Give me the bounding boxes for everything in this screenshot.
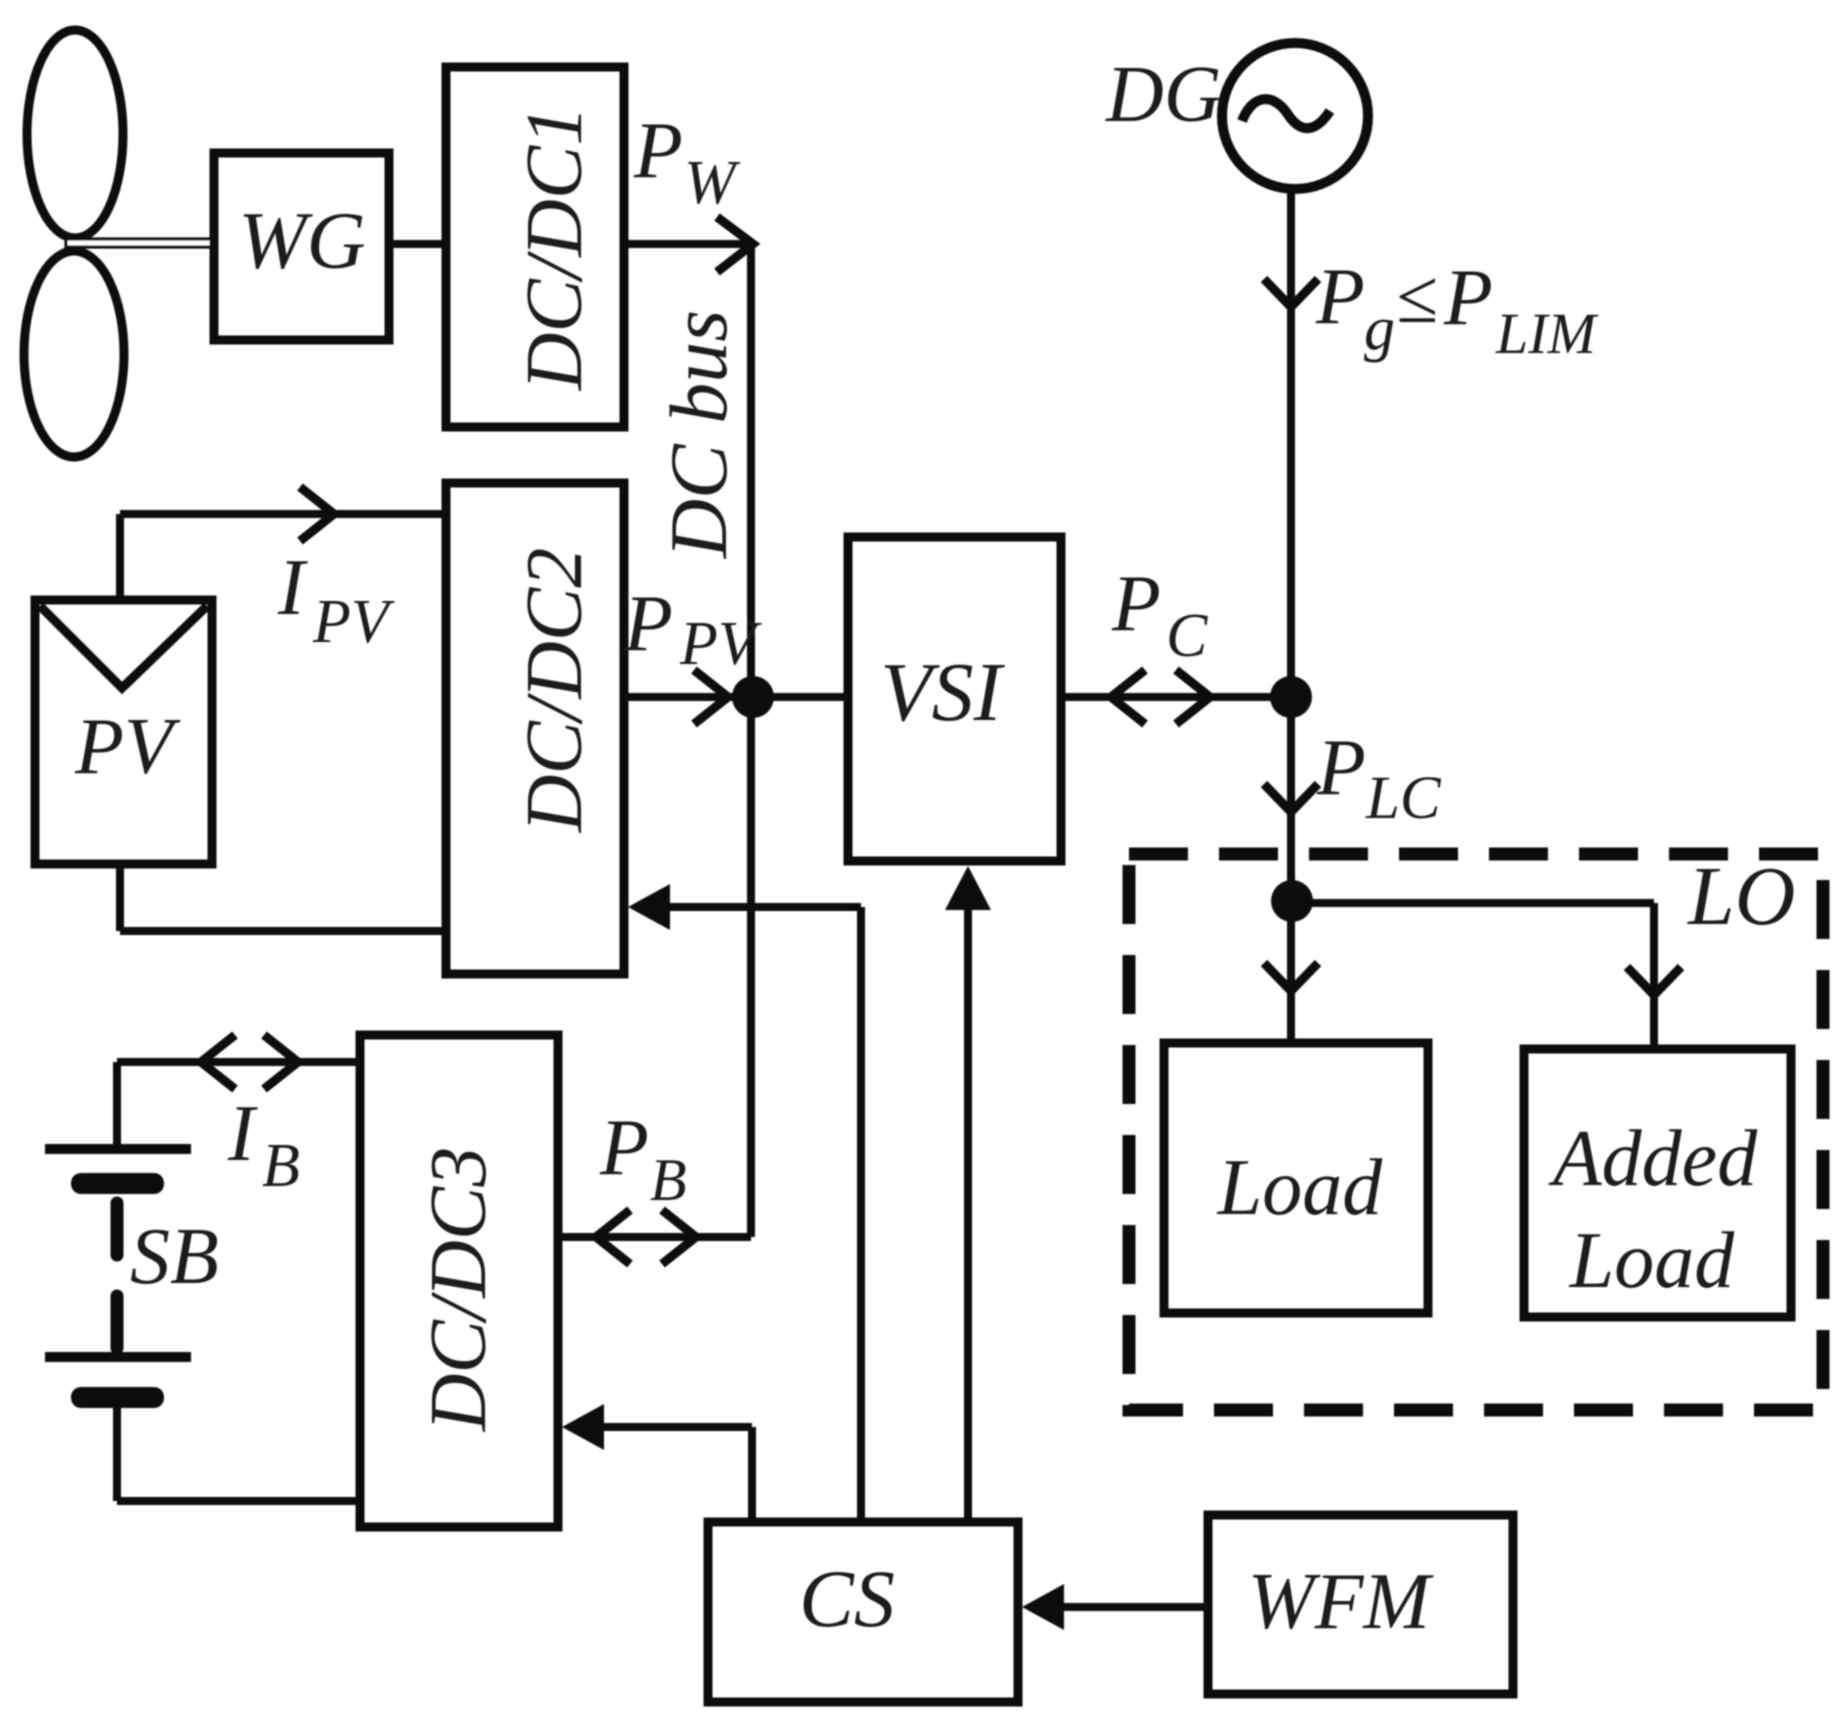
battery SB link stub 2 xyxy=(111,1296,124,1348)
svg-text:P: P xyxy=(623,580,673,668)
svg-text:LC: LC xyxy=(1365,765,1442,832)
box CS xyxy=(708,1522,1018,1702)
wire WG to DC/DC1 xyxy=(389,240,446,248)
control wire CS to DC/DC3 xyxy=(600,1423,752,1431)
svg-text:Load: Load xyxy=(1217,1144,1383,1232)
svg-text:P: P xyxy=(599,1104,649,1192)
wire I_PV to DC/DC2 xyxy=(120,510,446,518)
node B junction dot xyxy=(1270,676,1312,718)
wire battery bottom to DC/DC3 xyxy=(117,1497,360,1505)
node C junction dot xyxy=(1271,880,1313,922)
DG sine wave xyxy=(1242,99,1330,128)
svg-text:I: I xyxy=(227,1090,258,1178)
arrowhead filled into CS xyxy=(1022,1584,1064,1630)
wire P_W: DC/DC1 to DC bus xyxy=(624,240,751,248)
svg-text:LO: LO xyxy=(1687,850,1795,943)
svg-text:LIM: LIM xyxy=(1495,301,1599,366)
svg-text:P: P xyxy=(1111,560,1161,648)
arrowhead chevron P_C right xyxy=(1176,670,1210,724)
svg-text:PV: PV xyxy=(312,588,395,656)
arrowhead chevron Load down xyxy=(1264,963,1318,991)
svg-text:W: W xyxy=(684,149,741,217)
wire P_C: VSI to node B xyxy=(1061,693,1291,701)
svg-text:Load: Load xyxy=(1569,1217,1735,1305)
wire P_PV: DC/DC2 to VSI xyxy=(624,693,848,701)
svg-text:WG: WG xyxy=(238,195,366,286)
label DC bus rotated xyxy=(653,310,744,559)
svg-text:PV: PV xyxy=(679,610,762,678)
control wire CS to VSI xyxy=(964,908,972,1522)
svg-text:P: P xyxy=(633,107,683,195)
svg-text:P: P xyxy=(1315,253,1365,341)
label DC/DC3 rotated xyxy=(415,1147,503,1433)
battery SB thick plate 1 xyxy=(71,1173,164,1194)
battery SB link stub 1 xyxy=(111,1203,124,1255)
svg-text:B: B xyxy=(262,1132,300,1200)
arrowhead chevron P_B left xyxy=(596,1210,630,1264)
svg-text:I: I xyxy=(277,544,308,632)
arrowhead chevron P_PV xyxy=(694,670,728,724)
label DC/DC1 rotated xyxy=(511,106,599,392)
box WG xyxy=(214,153,389,340)
wire PV bottom to DC/DC2 xyxy=(120,927,446,935)
svg-text:PV: PV xyxy=(74,703,181,791)
box Added Load xyxy=(1524,1049,1791,1317)
svg-text:WFM: WFM xyxy=(1248,1558,1435,1646)
arrowhead chevron P_g down xyxy=(1264,279,1318,307)
control wire CS to DC/DC2 xyxy=(666,903,861,911)
svg-text:P: P xyxy=(1316,724,1366,812)
svg-text:VSI: VSI xyxy=(880,646,1005,739)
wind turbine blade upper xyxy=(27,30,123,238)
box DC/DC2 xyxy=(446,483,624,974)
wire DC bus vertical xyxy=(747,244,755,1237)
svg-text:B: B xyxy=(650,1147,687,1213)
label DC/DC2 rotated xyxy=(511,548,599,834)
battery SB long plate 2 xyxy=(45,1352,191,1362)
svg-text:DC/DC3: DC/DC3 xyxy=(415,1147,503,1433)
node A junction dot xyxy=(732,676,774,718)
wire PV top riser xyxy=(116,514,124,600)
svg-text:CS: CS xyxy=(799,1553,895,1644)
box Load xyxy=(1164,1043,1428,1313)
svg-text:DC/DC2: DC/DC2 xyxy=(511,548,599,834)
box WFM xyxy=(1208,1515,1513,1694)
battery SB thick plate 2 xyxy=(71,1387,164,1408)
svg-text:Added: Added xyxy=(1548,1115,1758,1203)
box VSI xyxy=(848,537,1061,861)
wire battery bottom riser xyxy=(113,1408,121,1501)
arrowhead chevron I_B left xyxy=(201,1035,235,1089)
wire node C down to Load xyxy=(1287,901,1295,1043)
arrowhead chevron P_W xyxy=(717,217,753,272)
box PV xyxy=(35,600,212,864)
wire battery top riser xyxy=(113,1062,121,1149)
wire WFM to CS xyxy=(1060,1603,1208,1611)
arrowhead filled into VSI xyxy=(945,866,991,910)
source DG circle xyxy=(1222,43,1368,189)
arrowhead filled into DC/DC2 xyxy=(628,884,670,930)
wire down to Added Load xyxy=(1650,903,1658,1049)
svg-text:≤: ≤ xyxy=(1396,255,1438,339)
arrowhead chevron P_C left xyxy=(1111,670,1145,724)
PV symbol V xyxy=(40,606,207,688)
battery SB long plate 1 xyxy=(45,1144,191,1154)
box DC/DC3 xyxy=(360,1035,558,1527)
arrowhead filled into DC/DC3 xyxy=(562,1404,604,1450)
arrowhead chevron Added Load down xyxy=(1627,967,1681,995)
wire DG down to node B xyxy=(1287,190,1295,697)
dashed box LO xyxy=(1129,854,1823,1410)
svg-text:C: C xyxy=(1166,602,1208,670)
svg-text:SB: SB xyxy=(130,1213,219,1301)
svg-text:DG: DG xyxy=(1105,51,1222,139)
arrowhead chevron I_B right xyxy=(264,1035,298,1089)
wire PV bottom riser xyxy=(116,864,124,931)
svg-text:DC/DC1: DC/DC1 xyxy=(511,106,599,392)
wire node B down to node C xyxy=(1287,697,1295,901)
arrowhead chevron P_LC down xyxy=(1264,784,1318,812)
wire node C right xyxy=(1292,899,1654,907)
box DC/DC1 xyxy=(446,67,624,427)
wind turbine shaft xyxy=(66,239,214,247)
wind turbine blade lower xyxy=(24,251,124,457)
arrowhead chevron I_PV xyxy=(300,487,334,541)
svg-text:P: P xyxy=(1443,254,1493,342)
wire P_B: DC/DC3 to DC bus xyxy=(558,1233,751,1241)
svg-text:g: g xyxy=(1364,295,1395,363)
arrowhead chevron P_B right xyxy=(662,1210,696,1264)
svg-text:DC bus: DC bus xyxy=(653,310,744,559)
wire I_B to DC/DC3 xyxy=(117,1058,360,1066)
